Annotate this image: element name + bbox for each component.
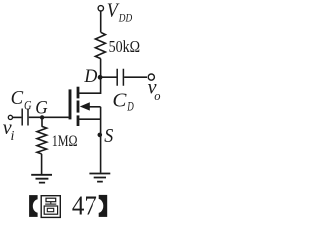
svg-text:D: D: [126, 100, 133, 114]
svg-text:C: C: [112, 90, 127, 112]
wire vi to capacitor CG: [13, 116, 22, 118]
wire drain node to capacitor CD: [101, 76, 117, 78]
svg-text:DD: DD: [118, 13, 133, 25]
wire G node down to resistor R2: [41, 117, 43, 126]
svg-text:o: o: [154, 89, 160, 103]
transistor M1 arrowhead: [80, 102, 90, 110]
caption bracket right: [99, 195, 108, 217]
transistor M1 body arrow line: [89, 106, 101, 108]
svg-text:D: D: [83, 66, 97, 87]
resistor R2 1M zigzag: [37, 126, 47, 154]
svg-text:G: G: [35, 97, 48, 118]
wire VDD to resistor R1: [100, 11, 102, 32]
transistor M1 channel top segment: [77, 87, 80, 99]
input terminal vi circle: [8, 115, 12, 119]
svg-text:S: S: [104, 126, 113, 147]
svg-text:V: V: [107, 1, 120, 22]
output terminal vo circle: [148, 74, 154, 80]
transistor M1 source lead: [79, 118, 100, 120]
transistor M1 gate bar: [69, 89, 72, 119]
svg-text:G: G: [24, 98, 32, 112]
svg-text:C: C: [11, 88, 24, 109]
ground right: [89, 174, 110, 182]
ground left: [31, 175, 52, 183]
svg-text:50kΩ: 50kΩ: [109, 37, 141, 56]
wire R2 to ground: [41, 154, 43, 174]
resistor R1 50k zigzag: [95, 32, 105, 58]
source rail down to ground: [100, 107, 102, 173]
svg-text:i: i: [11, 129, 15, 144]
capacitor CD plates: [117, 69, 123, 86]
wire CD to output terminal: [124, 76, 147, 78]
wire R1 to drain node: [100, 59, 102, 78]
capacitor CG plates: [22, 109, 28, 126]
wire CG to gate bar through node G: [29, 116, 69, 118]
node D junction dot: [98, 75, 103, 80]
transistor M1 channel bottom segment: [77, 115, 80, 126]
caption bracket left: [29, 195, 37, 217]
node S junction dot: [98, 133, 103, 138]
transistor M1 channel middle segment: [77, 101, 80, 113]
node G junction dot: [40, 115, 44, 119]
VDD terminal: [98, 6, 103, 11]
caption glyph tu (figure): [41, 196, 60, 218]
svg-text:1MΩ: 1MΩ: [52, 133, 78, 150]
wire drain node down to MOSFET drain lead: [79, 77, 100, 93]
